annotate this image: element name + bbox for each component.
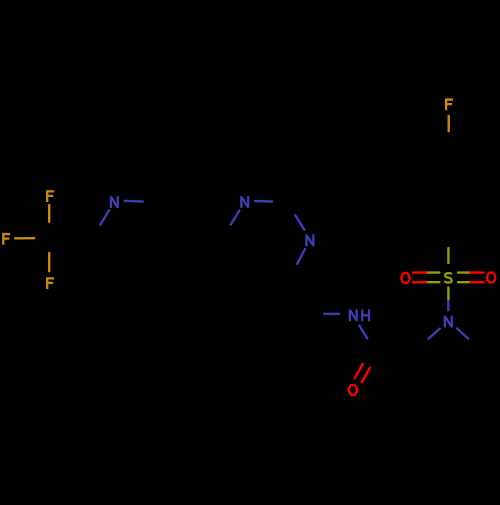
- bond C7-F2 half: [15, 237, 34, 240]
- bond C9=O1 double line a: [355, 364, 363, 378]
- bond S1=O2 line b S-half: [426, 281, 440, 283]
- bond S1=O2 line a S-half: [426, 271, 440, 273]
- bond N1-C2 half: [100, 210, 109, 224]
- atom N3 (pyrimidine N3): [306, 234, 313, 246]
- atom O1 (carbonyl O): [349, 385, 357, 395]
- bond N3-C4p half: [297, 249, 305, 264]
- atom S1 (sulfonyl S): [445, 273, 452, 283]
- bond S1=O3 line b O-half: [470, 281, 483, 283]
- atom N1 (pyridine N): [111, 196, 118, 208]
- atom F4 (aryl F): [445, 98, 453, 110]
- bond S1=O3 line b S-half: [458, 281, 470, 283]
- bond C7-F3 half: [48, 253, 50, 271]
- atom N5 (azetidine N): [445, 316, 452, 328]
- atom O2 (sulfonyl O left): [401, 273, 409, 283]
- bond S1=O2 line a O-half: [413, 271, 426, 273]
- bond C9=O1 double line b: [362, 368, 370, 382]
- atom F2 (CF3 left F): [2, 233, 10, 245]
- bond C7-F1 half: [48, 205, 50, 222]
- bond Caryl-F4 half: [448, 116, 450, 131]
- bond S1-N5 half: [447, 287, 449, 299]
- atom N4 (amide NH): [350, 309, 357, 321]
- bond S1=O3 line a S-half: [458, 271, 470, 273]
- bond N4-C9 half: [359, 326, 367, 339]
- bond C2p-N3 half: [295, 215, 304, 230]
- atom F1 (CF3 top F): [46, 190, 54, 202]
- bond N5-C10 half: [428, 329, 439, 339]
- atom N2 (pyrimidine N1): [241, 196, 248, 208]
- atom O3 (sulfonyl O right): [487, 272, 495, 282]
- bond N5-S1 half: [447, 299, 449, 310]
- bond N5-C11 half: [457, 328, 469, 338]
- bond S1=O3 line a O-half: [470, 271, 483, 273]
- bond N2-C6p half: [231, 211, 240, 225]
- atom F3 (CF3 bottom F): [46, 277, 54, 289]
- bond C8-N4 half: [324, 313, 339, 316]
- bond N2-C2p half: [255, 200, 272, 203]
- bond N1-C6 half: [125, 200, 143, 203]
- bond S1-Caryl half: [447, 248, 449, 263]
- bond S1=O2 line b O-half: [413, 281, 426, 283]
